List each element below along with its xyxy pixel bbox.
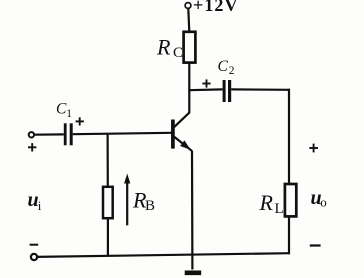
+12V supply terminal bbox=[185, 3, 191, 9]
transistor Q1 emitter arrowhead bbox=[180, 140, 190, 149]
plus sign at C1 bbox=[76, 117, 84, 125]
plus sign at input terminal bbox=[28, 143, 36, 151]
plus sign at output bbox=[309, 144, 318, 153]
svg-text:L: L bbox=[275, 201, 284, 217]
svg-text:1: 1 bbox=[66, 108, 72, 120]
minus sign at output bottom bbox=[310, 244, 321, 246]
input bottom terminal bbox=[31, 254, 37, 260]
transistor Q1 base bar bbox=[171, 120, 175, 149]
svg-text:o: o bbox=[320, 195, 327, 210]
wire collector node to C2 bbox=[188, 88, 222, 91]
wire RL to bottom corner bbox=[288, 216, 290, 254]
resistor RC bbox=[184, 32, 196, 63]
capacitor C2 bbox=[223, 80, 226, 102]
svg-text:+12V: +12V bbox=[193, 0, 238, 15]
wire C2 to right corner bbox=[231, 88, 290, 91]
transistor Q1 collector stroke bbox=[174, 112, 190, 127]
input top terminal bbox=[29, 132, 34, 137]
bottom wire bbox=[36, 253, 290, 257]
wire C1 to base bbox=[73, 133, 172, 134]
resistor RL bbox=[285, 184, 296, 216]
transistor Q1 emitter stroke bbox=[174, 137, 192, 151]
emitter wire down bbox=[191, 151, 194, 270]
wire input terminal to C1 bbox=[34, 133, 64, 136]
plus sign at C2 bbox=[202, 79, 210, 87]
wire RB branch down bbox=[106, 134, 108, 188]
minus sign at input bottom bbox=[30, 244, 39, 246]
wire supply to RC bbox=[188, 9, 189, 32]
wire RC to collector node bbox=[188, 63, 190, 113]
wire RB to bottom wire bbox=[107, 218, 109, 256]
svg-text:2: 2 bbox=[229, 65, 235, 77]
capacitor C1 bbox=[64, 123, 67, 145]
resistor RB bbox=[103, 187, 113, 218]
svg-text:R: R bbox=[259, 190, 274, 215]
svg-text:R: R bbox=[156, 35, 171, 60]
svg-text:B: B bbox=[145, 198, 155, 214]
ground bbox=[185, 270, 202, 275]
svg-text:C: C bbox=[173, 45, 183, 61]
arrow (RB current direction) bbox=[126, 181, 128, 225]
svg-text:C: C bbox=[218, 58, 229, 75]
svg-text:i: i bbox=[38, 198, 42, 213]
wire right branch down to RL bbox=[288, 89, 290, 184]
